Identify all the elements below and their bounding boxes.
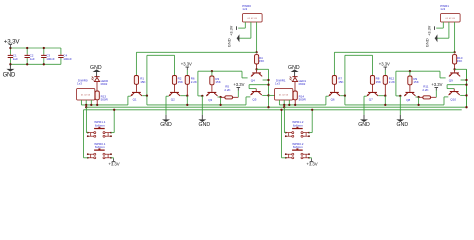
- svg-text:15K: 15K: [259, 59, 264, 63]
- svg-text:100nF: 100nF: [46, 57, 55, 61]
- svg-text:0602: 0602: [101, 82, 108, 86]
- svg-text:15K: 15K: [338, 80, 343, 84]
- svg-text:1uF: 1uF: [30, 57, 35, 61]
- svg-text:2.2K: 2.2K: [224, 88, 230, 92]
- svg-text:Q5: Q5: [252, 98, 256, 102]
- svg-text:Q7: Q7: [369, 98, 373, 102]
- svg-text:1x3: 1x3: [77, 82, 82, 86]
- svg-text:+3.3V: +3.3V: [379, 62, 390, 67]
- svg-text:15K: 15K: [215, 80, 220, 84]
- svg-text:2.2K: 2.2K: [191, 80, 197, 84]
- svg-text:+3.3V: +3.3V: [233, 82, 244, 87]
- svg-text:15K: 15K: [140, 80, 145, 84]
- svg-text:01 02 03: 01 02 03: [248, 18, 257, 20]
- svg-text:+3.3V: +3.3V: [230, 25, 234, 35]
- svg-text:Q1: Q1: [133, 98, 137, 102]
- svg-text:Q4: Q4: [251, 78, 255, 82]
- svg-text:15K: 15K: [457, 59, 462, 63]
- svg-text:Q3: Q3: [208, 98, 212, 102]
- svg-text:+3.3V: +3.3V: [431, 82, 442, 87]
- svg-text:+3.3V: +3.3V: [4, 38, 21, 45]
- svg-text:2.2K: 2.2K: [389, 80, 395, 84]
- svg-text:GND: GND: [199, 122, 211, 128]
- svg-text:2.2K: 2.2K: [422, 88, 428, 92]
- svg-text:1x3: 1x3: [440, 7, 445, 11]
- svg-text:Q10: Q10: [450, 98, 456, 102]
- svg-text:1x3: 1x3: [275, 82, 280, 86]
- svg-text:GND: GND: [425, 38, 430, 47]
- svg-text:1uF: 1uF: [13, 57, 18, 61]
- svg-text:Q2: Q2: [171, 98, 175, 102]
- svg-text:+3.3V: +3.3V: [181, 62, 192, 67]
- svg-text:Q9: Q9: [449, 78, 453, 82]
- svg-text:+3.3V: +3.3V: [108, 161, 119, 166]
- svg-text:01 02 03: 01 02 03: [446, 18, 455, 20]
- svg-text:+3.3V: +3.3V: [428, 25, 432, 35]
- svg-text:GND: GND: [397, 122, 409, 128]
- svg-text:Q6: Q6: [331, 98, 335, 102]
- svg-text:GND: GND: [3, 73, 16, 79]
- svg-text:+3.3V: +3.3V: [306, 161, 317, 166]
- svg-text:500R: 500R: [299, 97, 307, 101]
- svg-text:GND: GND: [358, 122, 370, 128]
- svg-text:GND: GND: [160, 122, 172, 128]
- svg-text:15K: 15K: [178, 80, 183, 84]
- svg-text:500R: 500R: [101, 97, 109, 101]
- svg-text:01 02 03: 01 02 03: [81, 95, 90, 97]
- svg-text:0602: 0602: [299, 82, 306, 86]
- svg-text:01 02 03: 01 02 03: [279, 95, 288, 97]
- svg-text:GND: GND: [227, 38, 232, 47]
- svg-text:Q8: Q8: [406, 98, 410, 102]
- svg-text:15K: 15K: [413, 80, 418, 84]
- svg-text:1x3: 1x3: [242, 7, 247, 11]
- svg-text:100nF: 100nF: [63, 57, 72, 61]
- svg-text:15K: 15K: [376, 80, 381, 84]
